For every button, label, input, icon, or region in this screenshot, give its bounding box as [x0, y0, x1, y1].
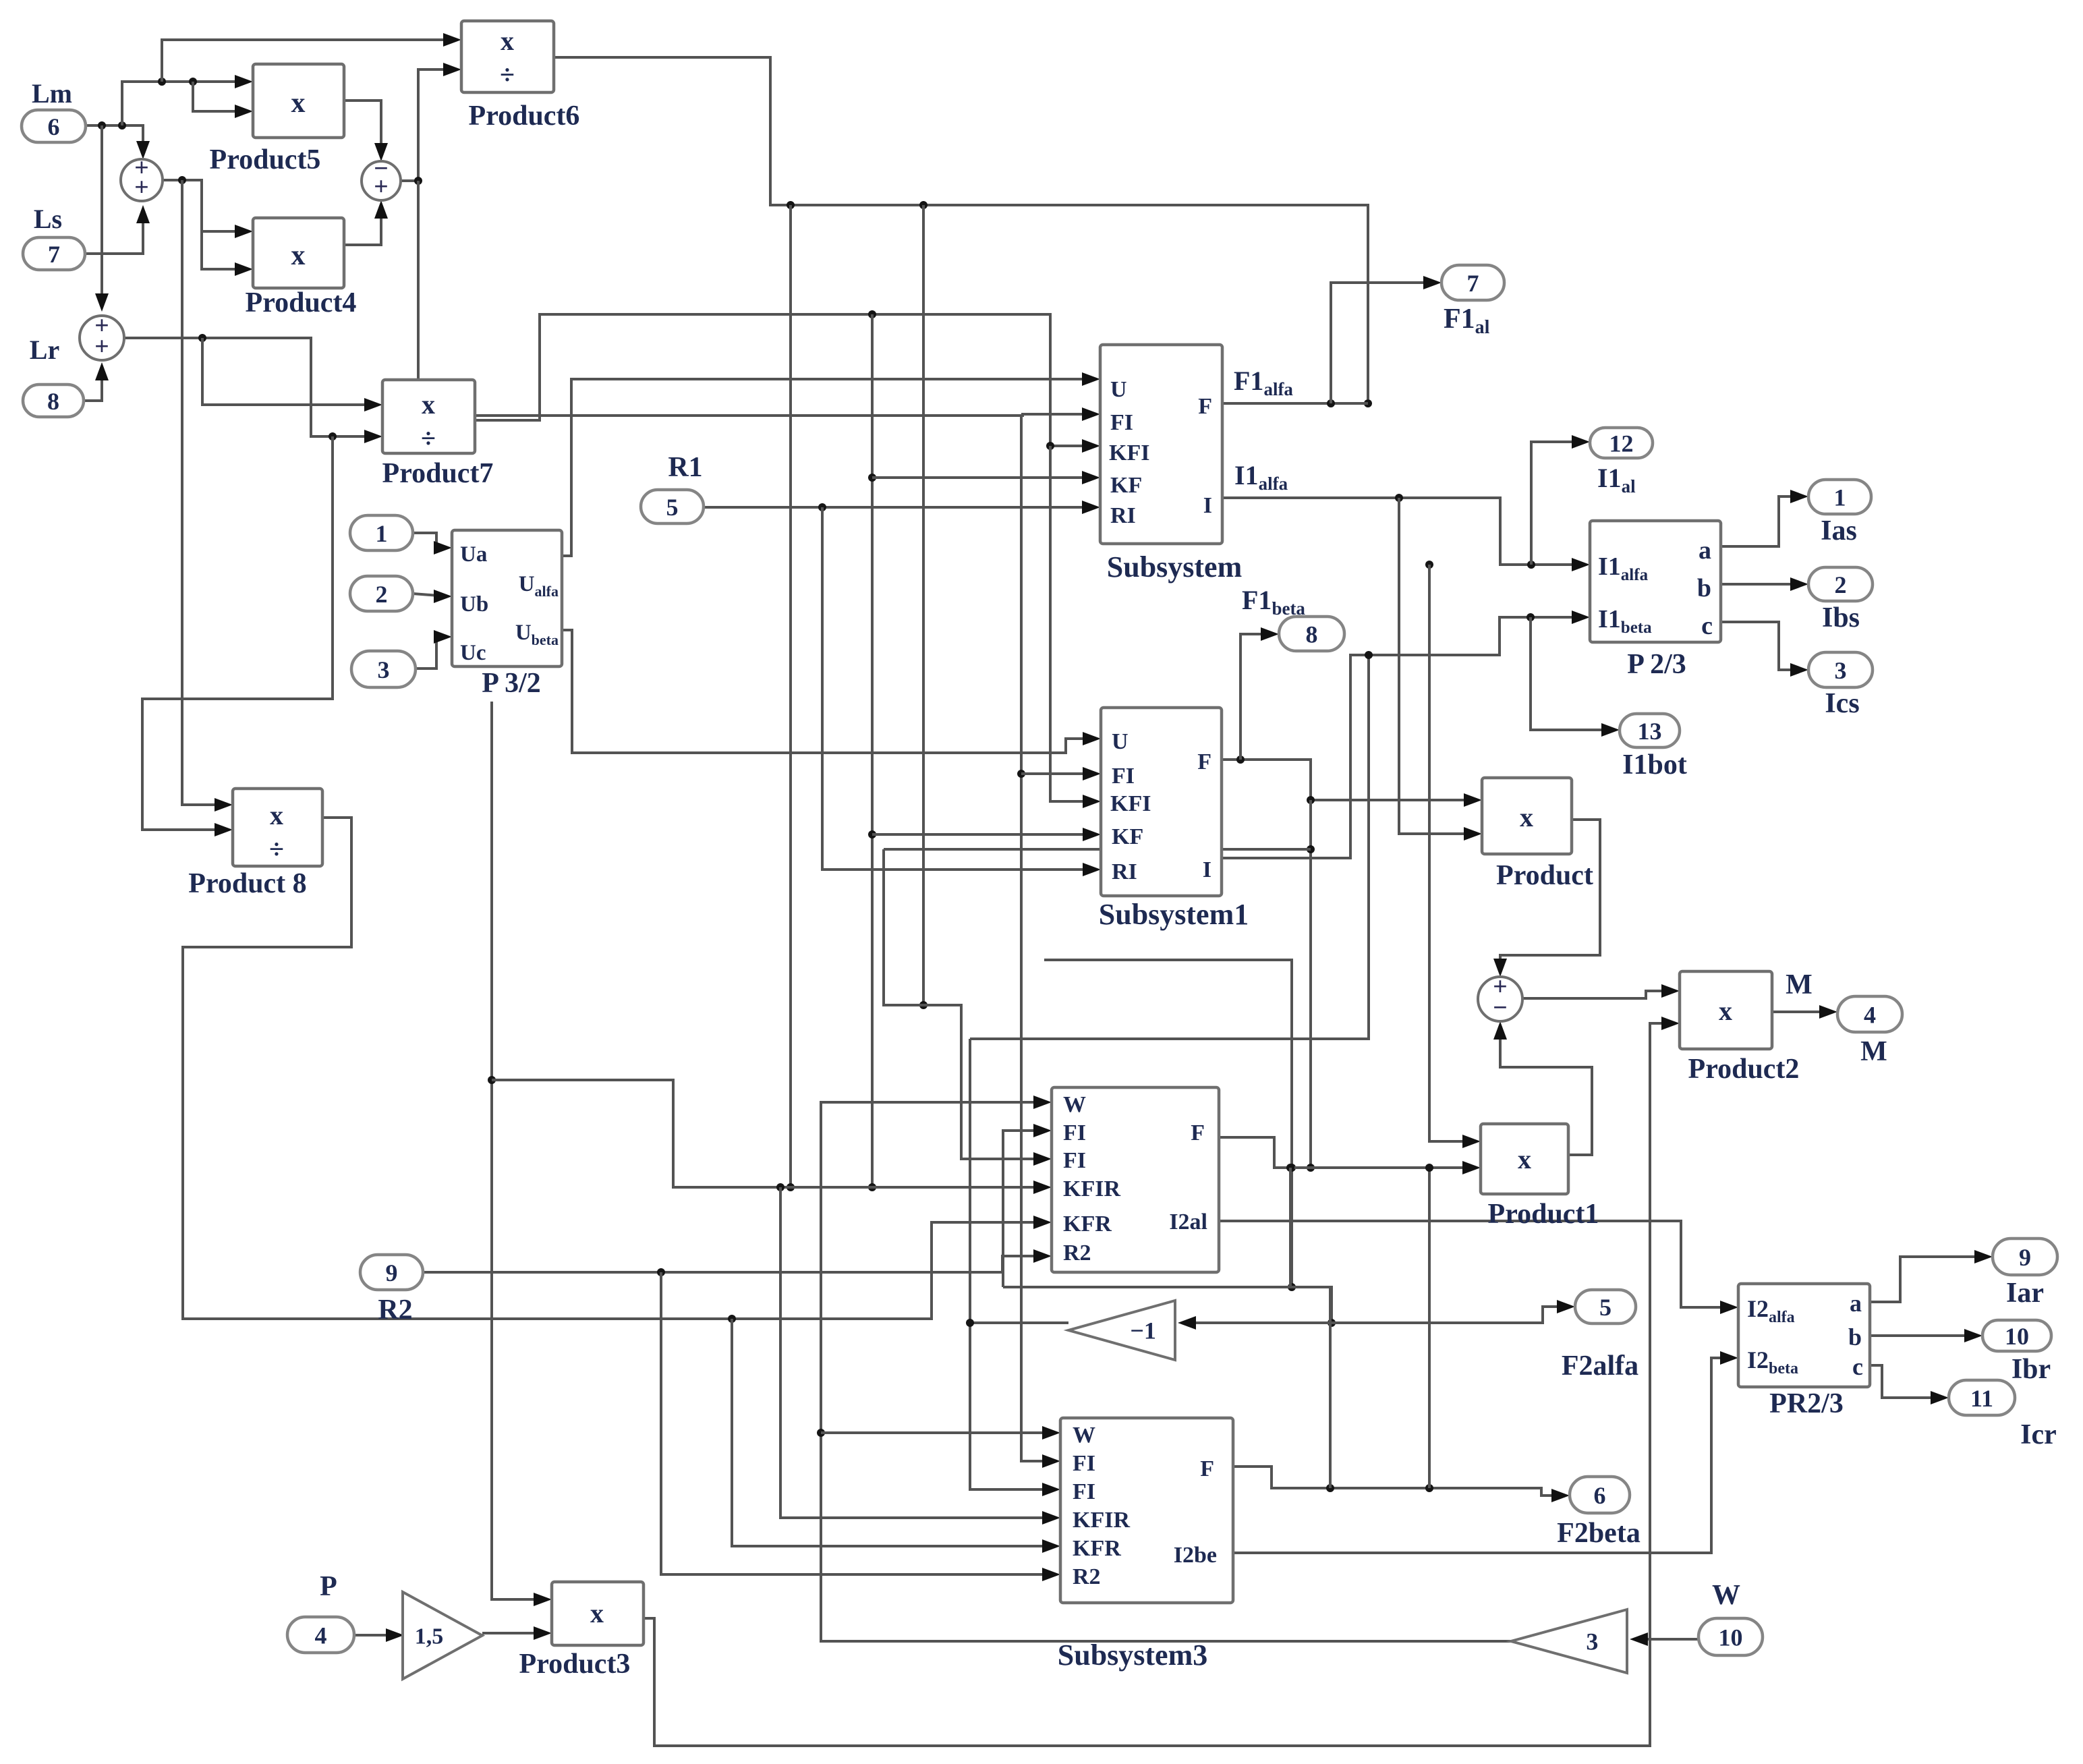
output port 12 I1al — [1590, 428, 1653, 458]
product Product4 — [253, 218, 344, 288]
wire sum3 branch down to KFI bus — [418, 181, 1024, 416]
wire branch to Product7 x input — [202, 338, 378, 405]
svg-text:Ua: Ua — [460, 542, 487, 567]
svg-text:12: 12 — [1609, 430, 1634, 457]
svg-text:F: F — [1197, 749, 1211, 774]
svg-text:Lm: Lm — [32, 78, 72, 109]
svg-text:Uc: Uc — [460, 641, 486, 665]
wire Ubeta to Subsystem1 U — [562, 630, 1096, 753]
wire Product5 out to sum3 top — [344, 101, 381, 157]
block Subsystem2 — [1052, 1087, 1219, 1272]
wire W branch to Subsystem3 — [821, 1431, 1056, 1434]
block Subsystem1 — [1101, 708, 1222, 896]
wire branch to Subsystem1 KF — [872, 833, 1096, 836]
svg-text:4: 4 — [315, 1622, 327, 1649]
svg-text:Subsystem: Subsystem — [1107, 550, 1243, 584]
svg-text:13: 13 — [1638, 718, 1662, 745]
svg-text:I1bot: I1bot — [1622, 749, 1687, 780]
svg-text:a: a — [1850, 1290, 1862, 1317]
product Product3 — [552, 1582, 644, 1645]
svg-text:RI: RI — [1110, 503, 1136, 528]
wire F1beta down branch — [1309, 800, 1312, 1168]
wire F1beta up to out8 — [1240, 634, 1274, 760]
wire c to Icr — [1870, 1365, 1944, 1398]
wire branch left at 1259 — [884, 848, 1311, 851]
wire R2 to Subsystem2 — [423, 1256, 1047, 1272]
input port 10 W — [1699, 1618, 1763, 1655]
svg-text:M: M — [1786, 969, 1813, 1000]
wire b to Ibs — [1721, 583, 1804, 586]
svg-text:6: 6 — [48, 113, 60, 140]
wire sum2 output to Product7 — [124, 338, 378, 436]
svg-text:Product7: Product7 — [382, 458, 494, 489]
svg-text:Product1: Product1 — [1488, 1199, 1599, 1230]
input port 1 — [350, 515, 413, 550]
svg-text:8: 8 — [1306, 621, 1318, 648]
svg-text:+: + — [94, 333, 109, 361]
wire I1beta output — [1222, 617, 1585, 858]
svg-text:Subsystem1: Subsystem1 — [1099, 898, 1249, 931]
svg-text:b: b — [1848, 1324, 1862, 1350]
wire -1 out to Subsystem3 FI — [970, 1323, 1068, 1489]
svg-text:Product2: Product2 — [1688, 1054, 1800, 1085]
wire gain 1.5 to Product3 — [482, 1632, 547, 1634]
svg-text:P 2/3: P 2/3 — [1627, 649, 1686, 680]
svg-text:PR2/3: PR2/3 — [1769, 1388, 1844, 1419]
svg-text:Ics: Ics — [1825, 688, 1859, 719]
svg-text:1: 1 — [1834, 484, 1846, 511]
svg-text:M: M — [1860, 1036, 1887, 1067]
svg-text:KFI: KFI — [1109, 440, 1149, 465]
wire FI2 feed down to Subsystem2 — [884, 849, 1047, 1159]
product Product5 — [253, 64, 344, 138]
wire branch to Subsystem3 KFR — [732, 1319, 1056, 1546]
wire top to Product6 in1 — [162, 40, 457, 82]
svg-text:1: 1 — [376, 520, 388, 547]
input port 8 Lr — [23, 385, 84, 417]
svg-text:Product3: Product3 — [519, 1649, 631, 1680]
wire I1alfa down to Product in2 — [1399, 498, 1477, 834]
sum S4 — [1478, 977, 1522, 1021]
output port 3 Ics — [1808, 652, 1873, 687]
product Product6 — [461, 21, 554, 92]
svg-text:8: 8 — [47, 388, 59, 415]
output port 9 Iar — [1993, 1239, 2057, 1275]
input port 2 — [350, 576, 413, 611]
product Product2 — [1680, 971, 1772, 1049]
wire Product out to sum4 top — [1500, 820, 1600, 973]
svg-text:KF: KF — [1110, 473, 1142, 498]
svg-text:KFIR: KFIR — [1073, 1508, 1130, 1533]
wire bus x1172 down to KFIR net — [789, 205, 792, 1187]
wire oval10 W to gain3 — [1634, 1638, 1699, 1641]
wire KFIR bus from P3/2 area down to Product3 — [492, 702, 547, 1599]
svg-text:I: I — [1203, 857, 1211, 882]
wire I1alfa up to out12 — [1531, 442, 1585, 565]
svg-text:I2be: I2be — [1174, 1543, 1217, 1568]
wire in1 to Ua — [413, 533, 447, 548]
wire Lm up to Product5 inputs — [122, 82, 248, 125]
wire sum1 output net — [163, 180, 248, 231]
svg-text:F2alfa: F2alfa — [1562, 1350, 1638, 1382]
svg-text:Ibs: Ibs — [1822, 602, 1860, 633]
wire b to Ibr — [1870, 1334, 1978, 1337]
svg-text:F: F — [1200, 1456, 1214, 1481]
input port 9 R2 — [360, 1255, 423, 1290]
wire in3 to Uc — [416, 637, 447, 668]
wire bus x1369 down to FI net — [922, 205, 925, 1005]
sum S2 — [80, 316, 124, 360]
wire Product8 out long path — [183, 818, 1047, 1319]
wire KFIR branch to Subsystem3 — [780, 1187, 1056, 1518]
wire Ls to sum1 bottom — [85, 209, 143, 254]
wire Lm to sum2 top — [101, 125, 103, 308]
svg-text:x: x — [1520, 802, 1533, 832]
svg-text:Product6: Product6 — [469, 101, 580, 132]
wire branch to Subsystem1 FI — [1021, 772, 1096, 775]
svg-text:Product5: Product5 — [210, 144, 321, 175]
svg-text:FI: FI — [1063, 1148, 1086, 1173]
output port 2 Ibs — [1808, 567, 1873, 601]
product Product — [1482, 778, 1572, 854]
wire branch to Subsystem KF — [872, 476, 1095, 479]
svg-text:U: U — [1112, 729, 1129, 754]
wire F1beta output — [1222, 760, 1477, 800]
wire Ualfa to Subsystem U — [562, 379, 1095, 556]
product Product 8 — [233, 789, 322, 866]
input port 5 R1 — [641, 490, 704, 523]
wire FI bus x1514 — [1021, 413, 1095, 416]
output port 8 F1beta — [1279, 617, 1344, 651]
wire Product6 output bus — [554, 57, 1368, 399]
svg-text:Ls: Ls — [34, 204, 62, 234]
wire R2 branch to Subsystem3 — [661, 1272, 1056, 1574]
output port 6 F2beta — [1570, 1477, 1630, 1513]
svg-text:F: F — [1191, 1120, 1205, 1145]
svg-text:7: 7 — [48, 241, 60, 268]
svg-text:x: x — [590, 1598, 604, 1628]
input port 4 P — [287, 1617, 354, 1653]
svg-text:Iar: Iar — [2006, 1278, 2044, 1309]
svg-text:FI: FI — [1110, 410, 1133, 435]
svg-text:KFR: KFR — [1073, 1536, 1121, 1561]
svg-text:−: − — [1493, 994, 1508, 1022]
sum S3 — [362, 161, 401, 200]
svg-text:FI: FI — [1063, 1120, 1086, 1145]
svg-text:10: 10 — [1719, 1624, 1743, 1651]
svg-text:3: 3 — [378, 656, 390, 683]
wire R1 branch to Subsystem1 RI — [822, 507, 1096, 870]
wire bus Product7-div branch down — [142, 436, 333, 830]
wire F1alfa output — [1222, 402, 1368, 405]
wire Product7 out to Subsystem KFI — [475, 314, 1095, 446]
block Subsystem — [1100, 345, 1222, 544]
wire Product4 out to sum3 bottom — [344, 204, 381, 245]
svg-text:5: 5 — [1599, 1294, 1611, 1321]
svg-text:Ias: Ias — [1821, 515, 1857, 546]
svg-text:KFR: KFR — [1063, 1212, 1112, 1236]
wire oval4 P to gain 1.5 — [354, 1634, 399, 1637]
product Product1 — [1481, 1124, 1568, 1194]
gain 1.5 — [403, 1592, 482, 1679]
svg-text:F: F — [1198, 394, 1212, 419]
svg-text:RI: RI — [1112, 859, 1137, 884]
wire a to Iar — [1870, 1257, 1988, 1302]
output port 7 F1al — [1442, 265, 1504, 300]
svg-text:7: 7 — [1467, 270, 1479, 297]
output port 1 Ias — [1808, 480, 1871, 514]
output port 4 M — [1837, 996, 1902, 1032]
svg-text:W: W — [1712, 1580, 1740, 1611]
svg-text:÷: ÷ — [500, 59, 515, 90]
svg-text:Product4: Product4 — [246, 287, 357, 318]
wire branch to Product5 in2 — [193, 82, 248, 111]
svg-text:R2: R2 — [378, 1294, 412, 1326]
wire R1 to Subsystem RI — [704, 506, 1095, 509]
wire y1423 line — [1044, 960, 1292, 1287]
gain 3 — [1511, 1610, 1627, 1673]
wire I1alfa output — [1222, 498, 1585, 565]
svg-text:FI: FI — [1112, 764, 1135, 789]
svg-text:x: x — [1518, 1144, 1531, 1174]
svg-text:9: 9 — [386, 1259, 398, 1286]
svg-text:FI: FI — [1073, 1479, 1095, 1504]
output port 11 Icr — [1949, 1380, 2015, 1415]
output port 5 F2alfa — [1575, 1290, 1636, 1324]
wire sum4 out to Product2 — [1522, 991, 1675, 998]
wire KFIR branch — [492, 1080, 1047, 1187]
svg-text:Ibr: Ibr — [2011, 1354, 2051, 1385]
output port 10 Ibr — [1982, 1320, 2051, 1351]
svg-text:÷: ÷ — [269, 834, 284, 864]
output port 13 I1bot — [1620, 714, 1680, 747]
input port 6 Lm — [22, 110, 86, 142]
svg-text:5: 5 — [666, 494, 679, 521]
svg-text:x: x — [422, 389, 435, 420]
svg-text:c: c — [1852, 1353, 1863, 1380]
svg-text:KFI: KFI — [1110, 791, 1151, 816]
block P 3/2 — [452, 530, 562, 666]
input port 7 Ls — [23, 237, 85, 270]
svg-text:U: U — [1110, 377, 1127, 402]
svg-text:x: x — [1719, 996, 1732, 1026]
wire I1beta down to out13 — [1531, 617, 1615, 730]
svg-text:10: 10 — [2005, 1323, 2029, 1350]
svg-text:÷: ÷ — [421, 423, 436, 453]
svg-text:c: c — [1701, 612, 1713, 640]
wire Product2 out to M port — [1772, 1011, 1833, 1013]
svg-text:KF: KF — [1112, 824, 1143, 849]
sum S1 — [121, 159, 163, 201]
svg-text:+: + — [374, 173, 389, 201]
svg-text:3: 3 — [1586, 1628, 1598, 1655]
wire bus x1293 KF feed — [871, 314, 874, 1187]
svg-text:11: 11 — [1970, 1385, 1993, 1412]
wire branch down to Subsystem1 KFI — [1050, 446, 1096, 801]
wire F2 output to Product1 in2 — [1219, 1137, 1476, 1168]
svg-text:6: 6 — [1594, 1482, 1606, 1509]
svg-text:1,5: 1,5 — [415, 1624, 444, 1649]
svg-text:x: x — [291, 240, 306, 271]
block PR2/3 — [1738, 1284, 1870, 1387]
wire a to Ias — [1721, 496, 1804, 546]
svg-text:b: b — [1697, 574, 1711, 602]
svg-text:W: W — [1063, 1092, 1086, 1117]
wire sum3 out to Product6 in2 — [401, 69, 457, 181]
svg-text:3: 3 — [1835, 657, 1847, 684]
svg-text:x: x — [270, 800, 283, 830]
wire feedback to F2alfa port — [1332, 1307, 1570, 1323]
svg-text:Ub: Ub — [460, 592, 488, 617]
wire gain3 out W bus — [821, 1102, 1511, 1641]
svg-text:W: W — [1073, 1423, 1095, 1448]
svg-text:R1: R1 — [668, 452, 702, 483]
wire bus sum1-out down — [182, 180, 228, 805]
svg-text:2: 2 — [376, 581, 388, 608]
wire Product3 out to Product2 in2 — [644, 1023, 1675, 1746]
svg-text:Product: Product — [1496, 860, 1593, 891]
svg-text:9: 9 — [2019, 1244, 2031, 1271]
svg-text:I2al: I2al — [1169, 1210, 1207, 1234]
block P 2/3 — [1590, 521, 1721, 642]
wire F3 up branch 2 — [1428, 1168, 1431, 1488]
svg-text:R2: R2 — [1073, 1564, 1101, 1589]
svg-text:P 3/2: P 3/2 — [482, 668, 541, 699]
wire in2 to Ub — [413, 594, 447, 596]
input port 3 — [351, 651, 416, 687]
wire feedback to -1 gain input — [1182, 1321, 1332, 1324]
svg-text:Product 8: Product 8 — [188, 868, 306, 899]
wire Product1 out to sum4 bottom — [1500, 1025, 1592, 1155]
wire F2 down to feedback line — [1289, 1168, 1292, 1287]
wire c to Ics — [1721, 622, 1804, 670]
wire I2be out to PR2/3 I2beta — [1233, 1358, 1734, 1553]
block Subsystem3 — [1060, 1418, 1233, 1603]
svg-text:FI: FI — [1073, 1451, 1095, 1476]
svg-text:4: 4 — [1864, 1001, 1876, 1028]
svg-text:+: + — [134, 173, 149, 202]
wire Lr to sum2 bottom — [84, 366, 102, 401]
svg-text:I: I — [1203, 493, 1212, 518]
wire FI1 loop to Subsystem2 — [1003, 1131, 1047, 1287]
svg-text:Icr: Icr — [2020, 1419, 2057, 1450]
product Product7 — [382, 380, 475, 453]
svg-text:x: x — [501, 26, 514, 56]
svg-text:a: a — [1699, 536, 1711, 565]
svg-text:Lr: Lr — [30, 335, 59, 365]
wire F1alfa up to out7 — [1331, 283, 1437, 403]
svg-text:Subsystem3: Subsystem3 — [1058, 1639, 1208, 1672]
svg-text:x: x — [291, 88, 306, 119]
wire I1alfa down to Product1 in1 — [1429, 565, 1476, 1141]
svg-text:2: 2 — [1835, 571, 1847, 598]
gain -1 — [1068, 1301, 1175, 1360]
wire cross line y1540 — [970, 655, 1369, 1039]
svg-text:P: P — [320, 1571, 337, 1602]
wire I2al to PR2/3 I2alfa — [1219, 1221, 1734, 1307]
svg-text:−1: −1 — [1130, 1317, 1156, 1344]
svg-text:R2: R2 — [1063, 1241, 1091, 1265]
wire F3 up feedback — [1329, 1287, 1332, 1488]
svg-text:F2beta: F2beta — [1557, 1518, 1640, 1549]
svg-text:KFIR: KFIR — [1063, 1176, 1120, 1201]
wire Lm net — [86, 125, 143, 155]
wire F3 out to F2beta — [1233, 1467, 1565, 1496]
